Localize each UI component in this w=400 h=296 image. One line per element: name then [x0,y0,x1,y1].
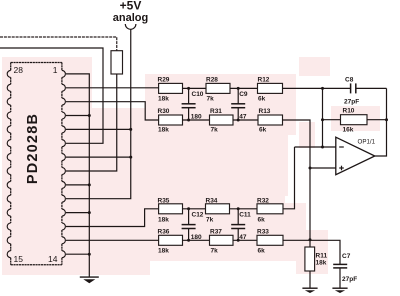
node ground pin 14 [88,253,91,256]
node R10 right [385,118,388,121]
wire R28 to R12 [230,87,258,89]
capacitor C12 [182,209,196,241]
resistor R28 [206,83,230,93]
svg-text:R31: R31 [210,108,222,115]
svg-text:18k: 18k [158,127,169,134]
ground symbol below R11 [302,288,317,293]
resistor R31 [210,115,234,125]
svg-text:OP1/1: OP1/1 [358,139,376,146]
svg-text:27pF: 27pF [342,276,357,283]
svg-text:C12: C12 [192,212,204,219]
resistor R35 [159,204,183,214]
wire pin 13 to R36 [66,239,159,241]
node minus input junction [321,146,324,149]
svg-text:C9: C9 [239,91,248,98]
resistor R32 [257,204,283,214]
highlight region wiring area [92,108,150,275]
svg-text:6k: 6k [259,127,267,134]
svg-text:analog: analog [113,12,148,24]
svg-text:R35: R35 [158,197,170,204]
resistor R33 [257,235,283,245]
svg-text:R32: R32 [257,197,269,204]
wire from left edge to vertical resistor (selected net) [0,37,117,51]
node C12 bottom [187,239,190,242]
svg-text:1: 1 [53,65,58,75]
svg-text:47: 47 [239,113,247,120]
capacitor C10 [182,88,196,120]
resistor R11 [305,247,315,271]
svg-text:R29: R29 [158,77,170,84]
svg-text:R13: R13 [259,108,271,115]
svg-text:6k: 6k [258,95,266,102]
svg-text:16k: 16k [343,127,354,134]
wire pin 2 to R29 [66,87,159,89]
capacitor C9 [231,88,245,120]
wire pin 9 to ground rail [66,184,89,186]
IC U1 left pin bumps [7,70,11,257]
highlight region around IC [2,57,92,275]
wire R34 to R32 [230,208,258,210]
wire pin 3 to R30 [66,102,159,120]
svg-text:7k: 7k [207,95,215,102]
wire +5V net D from terminal down to pin 10 [66,29,131,198]
op-amp minus sign [339,146,344,148]
svg-text:7k: 7k [211,127,219,134]
wire pin 7 to +5V net [66,156,131,158]
node C12 top [187,207,190,210]
highlight region top ladder [145,74,296,135]
wire feedback vertical minus node [322,88,324,147]
wire pin 14 to ground rail [66,253,89,255]
capacitor C11 [231,209,245,241]
wire R37 to R33 [233,239,257,241]
resistor R12 [258,83,283,93]
ground symbol below C7 [332,288,347,293]
IC U1 PD2028B body [11,63,62,265]
wire R33 to plus node and C7 [283,240,340,264]
wire R11 top [309,240,311,247]
svg-text:18k: 18k [158,216,169,223]
svg-text:6k: 6k [258,247,266,254]
wire R29 to R28 [183,87,207,89]
svg-text:R28: R28 [206,77,218,84]
svg-text:27pF: 27pF [344,99,359,106]
svg-text:R34: R34 [206,197,218,204]
resistor R10 [341,115,368,125]
wire R31 to R13 [233,119,258,121]
svg-text:C10: C10 [192,91,204,98]
ground symbol below IC [80,277,99,283]
capacitor C7 [333,264,347,287]
wire net C from resistor down to pin 8 [66,74,117,171]
svg-text:R36: R36 [158,228,170,235]
highlight region R10 [331,106,380,131]
wire R11 bottom to ground [309,271,311,288]
resistor R36 [159,235,183,245]
supply terminal arc [125,24,136,29]
node C10 top [187,87,190,90]
svg-text:7k: 7k [206,216,214,223]
svg-text:18k: 18k [316,260,327,267]
resistor (unlabeled, +5V reference) [111,51,123,74]
wire minus input [295,146,336,148]
svg-text:R10: R10 [343,108,355,115]
wire R35 to R34 [183,208,206,210]
wire R32 riser [283,147,295,209]
svg-text:C7: C7 [342,253,351,260]
wire pin 11 to ground rail [66,212,89,214]
svg-text:C11: C11 [239,212,251,219]
node C9 bottom [237,119,240,122]
wire R10 right [367,119,387,121]
highlight region minus node [299,122,315,148]
node C9 top [237,87,240,90]
highlight region bottom ladder [145,196,285,261]
svg-text:6k: 6k [258,216,266,223]
resistor R29 [159,83,183,93]
wire pin 12 to R35 [66,209,159,227]
wire R30 to R31 [183,119,210,121]
svg-text:R30: R30 [158,108,170,115]
node plus input junction [309,167,312,170]
wire ground rail A from pin 1 down to ground [66,74,89,277]
wire output vertical [375,88,387,156]
IC U1 right pin bumps [62,70,66,257]
resistor R34 [206,204,230,214]
node ground pin 11 [88,211,91,214]
svg-text:R12: R12 [258,77,270,84]
op-amp OP1/1 [336,137,375,175]
node plus bottom junction [309,238,312,241]
node ground pin 4 [88,114,91,117]
svg-text:7k: 7k [211,247,219,254]
node +5V pin 5 [129,128,132,131]
wire R36 to R37 [183,239,210,241]
wire plus input [310,167,336,169]
highlight region top right [299,57,330,76]
highlight region mid band [145,135,288,196]
svg-text:R33: R33 [257,228,269,235]
wire R13 to plus node riser [283,120,311,240]
node +5V pin 7 [129,156,132,159]
wire pin 4 to ground rail [66,115,89,117]
highlight region R11 [296,230,328,274]
highlight region bottom ladder right [285,203,306,261]
op-amp plus sign [339,167,344,169]
svg-text:R11: R11 [316,253,328,260]
node ground pin 9 [88,183,91,186]
wire R12 to C8 / minus node [283,87,351,89]
svg-text:28: 28 [14,65,24,75]
svg-text:14: 14 [48,254,58,264]
node C11 top [237,207,240,210]
node R10 left [321,118,324,121]
wire from left edge net B to pin 6 [0,48,103,143]
wire R10 left [323,119,341,121]
resistor R30 [159,115,183,125]
svg-text:C8: C8 [345,77,354,84]
resistor R37 [210,235,234,245]
svg-text:R37: R37 [210,228,222,235]
wire pin 5 to +5V net [66,128,131,130]
node C11 bottom [237,239,240,242]
svg-text:18k: 18k [158,247,169,254]
svg-text:15: 15 [14,254,24,264]
svg-text:PD2028B: PD2028B [25,113,41,184]
svg-text:180: 180 [191,113,202,120]
capacitor C8 [351,83,387,93]
svg-text:+5V: +5V [120,0,142,13]
node minus top [321,87,324,90]
resistor R13 [258,115,283,125]
svg-text:18k: 18k [158,95,169,102]
node C10 bottom [187,119,190,122]
